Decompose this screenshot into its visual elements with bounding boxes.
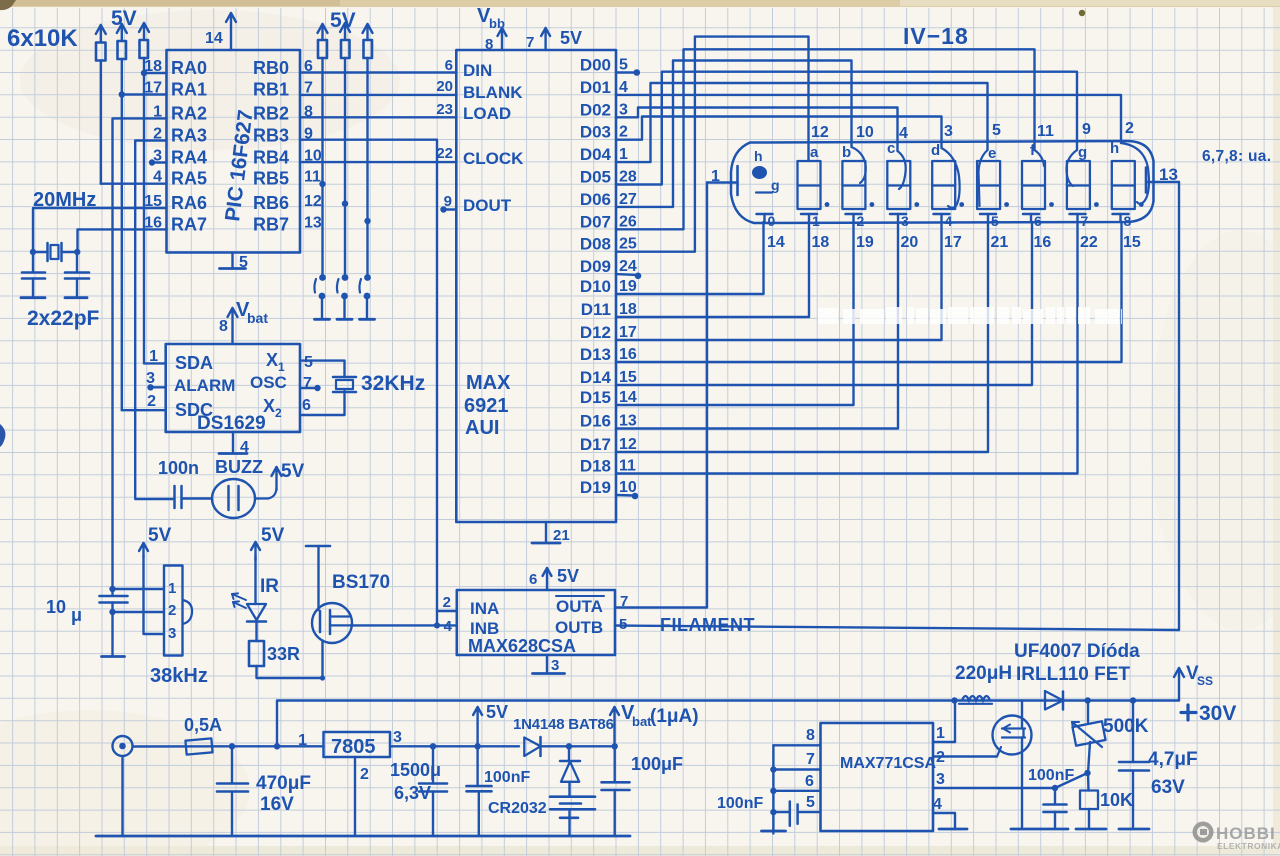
transistor Q2 IRLL110	[993, 716, 1032, 755]
wire jack to fuse	[134, 745, 232, 748]
svg-text:6,3V: 6,3V	[394, 783, 431, 803]
svg-text:6: 6	[805, 773, 814, 790]
svg-text:DOUT: DOUT	[463, 196, 512, 215]
hook segment f	[1035, 150, 1045, 166]
MAX628 INA stub	[437, 610, 457, 612]
svg-text:38kHz: 38kHz	[150, 665, 208, 687]
left edge ink mark (decorative)	[0, 424, 5, 447]
wire receiver pin1	[113, 588, 165, 590]
svg-text:1: 1	[278, 360, 285, 374]
svg-text:21: 21	[553, 527, 570, 544]
svg-text:11: 11	[1037, 123, 1054, 140]
svg-text:2x22pF: 2x22pF	[27, 307, 100, 330]
svg-text:D11: D11	[581, 300, 611, 319]
wire D04 to segment e	[616, 83, 988, 162]
junction pot	[1085, 697, 1091, 703]
svg-text:9: 9	[1082, 121, 1091, 138]
resistor R3 10K	[140, 40, 149, 58]
bottom-right watermark logo (decorative)	[1193, 822, 1280, 852]
svg-text:470μF: 470μF	[256, 773, 311, 794]
svg-text:BLANK: BLANK	[463, 83, 523, 102]
svg-text:30V: 30V	[1199, 702, 1236, 725]
svg-text:26: 26	[619, 213, 637, 230]
svg-text:4: 4	[619, 79, 628, 96]
svg-text:5: 5	[304, 354, 313, 371]
svg-text:3: 3	[551, 657, 559, 674]
svg-text:b: b	[842, 144, 851, 161]
svg-text:4: 4	[899, 125, 908, 142]
svg-text:10: 10	[856, 124, 874, 141]
svg-text:13: 13	[1159, 165, 1178, 184]
5V arrow R5	[344, 24, 346, 40]
svg-text:LOAD: LOAD	[463, 104, 511, 123]
svg-text:6921: 6921	[464, 395, 509, 417]
svg-text:5: 5	[992, 122, 1001, 139]
svg-text:18: 18	[812, 234, 830, 251]
wire R1 to RA5	[100, 61, 102, 184]
svg-text:RB3: RB3	[253, 126, 289, 146]
svg-text:2: 2	[1125, 120, 1134, 137]
ground C2	[65, 296, 87, 299]
svg-text:RB2: RB2	[253, 103, 289, 123]
svg-text:D04: D04	[580, 145, 612, 164]
svg-text:16: 16	[619, 346, 637, 363]
svg-text:33R: 33R	[267, 644, 300, 664]
tube grid 2 bar	[846, 213, 862, 216]
svg-text:13: 13	[304, 214, 322, 231]
wire to 7805 input	[232, 745, 324, 747]
svg-text:D07: D07	[580, 212, 611, 231]
5V arrow R6	[366, 25, 368, 40]
svg-text:D19: D19	[580, 478, 611, 497]
tube digit cell 4	[932, 161, 955, 209]
MAX771 input pin column	[772, 745, 774, 833]
svg-text:3: 3	[901, 213, 909, 229]
tube heater indicator dot	[752, 166, 767, 179]
switch at x=367.5	[364, 274, 371, 281]
MAX6921 5V arrow pin7	[544, 29, 546, 50]
crystal X1 20MHz	[33, 251, 48, 253]
ground switch x=345	[337, 318, 352, 321]
svg-text:7: 7	[526, 34, 534, 51]
hook segment h	[1121, 143, 1149, 204]
tube grid 6 bar	[1023, 213, 1039, 216]
svg-text:d: d	[931, 142, 940, 159]
wire R2 to SDC bus	[121, 59, 123, 410]
wire cap to buzzer	[182, 497, 213, 499]
filament return wire to OUTB	[1178, 182, 1180, 630]
switch at x=322.5	[319, 274, 326, 281]
switch at x=345	[342, 274, 349, 281]
junction RB6	[342, 200, 348, 206]
capacitor C5 1500uF 6.3V	[432, 746, 434, 783]
5V arrow buzzer	[275, 468, 277, 490]
wire receiver pin2	[113, 611, 165, 613]
tube grid 5 bar	[980, 213, 996, 216]
svg-text:2: 2	[168, 602, 176, 619]
svg-text:5V: 5V	[281, 461, 305, 482]
transistor Q1 BS170	[312, 603, 352, 643]
resistor R6 10K	[364, 40, 373, 58]
wire 33R to BS170 source	[257, 666, 323, 678]
wire RB1 to BLANK	[300, 94, 456, 96]
tube grid 1 bar	[801, 213, 817, 216]
LED D1 infrared	[247, 604, 266, 620]
svg-text:UF4007 Díóda: UF4007 Díóda	[1014, 641, 1140, 662]
7805 pin2 to ground	[354, 757, 356, 836]
tube grid 4 bar	[934, 213, 950, 216]
svg-text:5V: 5V	[486, 702, 508, 722]
wire D14 to grid 6	[616, 222, 1032, 385]
svg-text:μ: μ	[71, 605, 82, 625]
svg-text:BUZZ: BUZZ	[215, 457, 263, 477]
svg-text:h: h	[754, 148, 763, 164]
svg-text:12: 12	[619, 436, 637, 453]
svg-text:8: 8	[1124, 213, 1132, 229]
svg-text:23: 23	[436, 101, 453, 118]
hook segment b	[852, 147, 866, 183]
wire RA7 row to crystal	[78, 229, 167, 252]
stub D00 (nc)	[616, 71, 636, 73]
svg-text:e: e	[988, 145, 996, 162]
stub D09 (nc)	[616, 273, 637, 276]
svg-text:2: 2	[857, 213, 865, 229]
svg-text:D08: D08	[580, 235, 611, 254]
ground pin column	[762, 830, 786, 833]
svg-text:7: 7	[303, 375, 312, 392]
svg-text:5: 5	[239, 254, 248, 271]
ground 10K	[1076, 828, 1106, 831]
5V arrow R4	[321, 25, 323, 40]
wire RA3 row to buzzer bus	[135, 141, 174, 500]
svg-text:1: 1	[168, 580, 176, 597]
svg-text:bb: bb	[489, 16, 505, 31]
diode D3 BAT86 up	[568, 746, 570, 761]
main ground rail	[96, 835, 630, 838]
svg-text:OSC: OSC	[250, 373, 287, 392]
wire R5 to switch S2	[344, 58, 346, 275]
svg-text:MAX: MAX	[466, 372, 511, 394]
svg-text:6: 6	[445, 57, 453, 74]
svg-text:17: 17	[944, 234, 962, 251]
wire D07 to segment f	[616, 49, 1035, 229]
resistor R4 10K	[318, 40, 327, 58]
svg-text:2: 2	[360, 766, 369, 783]
tube digit cell 1	[798, 161, 821, 209]
junction RA0/R3	[141, 70, 147, 76]
svg-text:7: 7	[806, 751, 815, 768]
svg-text:4: 4	[933, 796, 942, 813]
5V arrow R2	[121, 25, 123, 41]
svg-text:2: 2	[275, 406, 282, 420]
capacitor C7 100uF	[614, 746, 616, 782]
DS1629 Vbat arrow pin8	[231, 309, 233, 344]
svg-text:32KHz: 32KHz	[361, 372, 425, 395]
MAX6921 pin21 ground	[545, 522, 547, 542]
tube digit cell 2	[842, 161, 865, 209]
svg-text:MAX628CSA: MAX628CSA	[468, 636, 576, 656]
junction battery branch	[566, 743, 572, 749]
svg-text:c: c	[887, 140, 895, 157]
svg-text:0: 0	[768, 213, 776, 229]
svg-text:RB4: RB4	[253, 148, 289, 168]
svg-text:CLOCK: CLOCK	[463, 149, 524, 168]
crystal X2 32kHz	[333, 376, 356, 379]
svg-text:SDA: SDA	[175, 353, 213, 373]
capacitor C1 22pF	[32, 252, 34, 273]
svg-text:RA4: RA4	[171, 148, 207, 168]
ground switch x=367.5	[360, 318, 375, 321]
svg-text:19: 19	[619, 278, 637, 295]
junction RB7	[364, 218, 370, 224]
tube pin 1 (filament left)	[707, 181, 738, 183]
svg-text:INA: INA	[470, 599, 499, 618]
jack ground stub	[121, 758, 123, 836]
wire D13 to grid 8	[616, 222, 1122, 362]
diode D4 UF4007	[1045, 691, 1063, 710]
tube V1 IV-18 envelope	[731, 141, 1154, 223]
svg-text:20MHz: 20MHz	[33, 189, 96, 211]
wire RB3 down to CLOCK and MAX628 bus	[300, 140, 437, 626]
resistor R9 10K	[1087, 773, 1090, 791]
wire RA6 row to crystal	[33, 208, 167, 252]
svg-text:6,7,8: ua.: 6,7,8: ua.	[1202, 148, 1271, 165]
svg-text:D06: D06	[580, 190, 611, 209]
svg-text:D10: D10	[580, 277, 611, 296]
svg-text:D18: D18	[580, 457, 611, 476]
svg-text:D05: D05	[580, 168, 611, 187]
svg-text:1: 1	[298, 732, 307, 749]
ground C10	[1042, 828, 1068, 831]
svg-text:1: 1	[812, 213, 820, 229]
svg-text:5V: 5V	[261, 525, 285, 546]
resistor R7 33R	[249, 641, 264, 666]
svg-text:5: 5	[991, 213, 999, 229]
svg-text:25: 25	[619, 236, 637, 253]
wire R4 to switch S1	[321, 58, 323, 275]
svg-text:g: g	[1078, 144, 1087, 161]
svg-text:RA3: RA3	[171, 126, 207, 146]
svg-text:D15: D15	[580, 388, 611, 407]
svg-text:D17: D17	[580, 435, 611, 454]
wire RA5 row	[101, 182, 167, 184]
5V arrow R3	[143, 24, 145, 40]
Vbat arrow	[613, 708, 615, 746]
svg-text:24: 24	[619, 258, 637, 275]
ground C11	[1119, 828, 1149, 831]
wire RA1 row	[122, 93, 167, 95]
svg-text:D13: D13	[580, 345, 611, 364]
svg-text:10: 10	[46, 597, 66, 617]
svg-text:7: 7	[1081, 213, 1089, 229]
svg-text:4: 4	[240, 439, 249, 456]
svg-text:RA1: RA1	[171, 80, 207, 100]
svg-text:RB7: RB7	[253, 214, 289, 234]
svg-text:D02: D02	[580, 100, 611, 119]
BS170 source wire	[321, 641, 323, 678]
IC U3 DS1629 body	[166, 344, 300, 432]
IC U7 MAX771CSA body	[821, 723, 934, 831]
svg-text:20: 20	[436, 78, 453, 95]
svg-text:ALARM: ALARM	[174, 376, 235, 395]
svg-text:DIN: DIN	[463, 61, 492, 80]
svg-text:RA2: RA2	[171, 103, 207, 123]
svg-text:15: 15	[1123, 234, 1141, 251]
MAX628 pin6 5V arrow	[546, 569, 548, 590]
battery B1 CR2032	[568, 782, 570, 797]
ground switch x=322.5	[315, 318, 330, 321]
svg-text:CR2032: CR2032	[488, 800, 547, 817]
wire D03 to segment d	[616, 117, 942, 149]
BS170 gate terminal bar	[306, 545, 330, 548]
svg-text:13: 13	[619, 413, 637, 430]
hook segment d	[942, 148, 960, 208]
wire RA2 row to IR receiver bus	[113, 118, 167, 594]
svg-text:6x10K: 6x10K	[7, 25, 78, 52]
resistor R5 10K	[341, 40, 350, 58]
svg-text:2: 2	[619, 124, 628, 141]
tube pin 13 (filament right)	[1145, 168, 1148, 193]
svg-text:8: 8	[219, 318, 228, 335]
svg-text:3: 3	[944, 123, 953, 140]
PIC pin 5 ground	[231, 253, 233, 269]
paper stains (decorative)	[20, 10, 400, 150]
svg-text:100nF: 100nF	[717, 795, 763, 812]
ground C1	[21, 296, 45, 299]
wire D10 to grid 0	[616, 222, 764, 294]
svg-text:IR: IR	[260, 576, 279, 597]
svg-text:SS: SS	[1197, 674, 1213, 688]
svg-text:4: 4	[444, 618, 453, 635]
svg-text:63V: 63V	[1151, 777, 1185, 798]
wire RB2 to LOAD	[300, 116, 456, 118]
svg-text:500K: 500K	[1103, 716, 1149, 737]
svg-text:8: 8	[806, 727, 815, 744]
svg-text:14: 14	[205, 30, 223, 47]
wire D16 to grid 3	[616, 222, 898, 429]
junction receiver pin2	[109, 609, 115, 615]
junction 4.7uF	[1130, 697, 1136, 703]
IR receiver U6 38kHz body	[164, 566, 183, 656]
junction RA1/R2	[119, 91, 125, 97]
FET source to ground	[1021, 738, 1023, 829]
svg-text:20: 20	[901, 234, 919, 251]
svg-text:h: h	[1110, 140, 1119, 157]
svg-text:100nF: 100nF	[484, 769, 530, 786]
5V arrow output	[476, 708, 478, 746]
svg-text:(1μA): (1μA)	[650, 706, 699, 727]
svg-text:RA7: RA7	[171, 214, 207, 234]
MAX628 pin3 ground	[546, 655, 548, 672]
svg-text:OUTB: OUTB	[555, 618, 603, 637]
wire buzzer to 5V	[255, 488, 277, 499]
capacitor C4 470uF	[231, 746, 233, 783]
svg-text:3: 3	[168, 625, 176, 642]
svg-text:D16: D16	[580, 412, 611, 431]
wire D12 to grid 4	[616, 222, 942, 340]
svg-text:a: a	[810, 144, 819, 161]
junction 100n / 5V node	[474, 743, 480, 749]
svg-text:MAX771CSA: MAX771CSA	[840, 755, 936, 772]
wire RB0 to DIN	[300, 71, 456, 73]
junction receiver pin1	[109, 586, 115, 592]
svg-text:6: 6	[302, 397, 311, 414]
resistor R2 10K	[118, 41, 127, 59]
tube digit cell 5	[977, 161, 1000, 209]
wire CLOCK row	[300, 161, 456, 163]
resistor R1 10K	[96, 43, 106, 61]
5V arrow receiver	[142, 544, 144, 557]
5V arrow LED	[254, 543, 256, 560]
svg-text:5V: 5V	[560, 28, 582, 48]
svg-text:5: 5	[619, 57, 628, 74]
svg-text:4,7μF: 4,7μF	[1148, 749, 1198, 770]
capacitor C8 10uF	[100, 595, 128, 598]
svg-text:BS170: BS170	[332, 572, 390, 593]
svg-text:D14: D14	[580, 368, 612, 387]
wire D17 to grid 5	[616, 222, 988, 452]
svg-text:2: 2	[147, 393, 156, 410]
svg-text:12: 12	[811, 124, 829, 141]
svg-text:6: 6	[1034, 213, 1042, 229]
svg-text:1: 1	[711, 168, 720, 185]
svg-text:D00: D00	[580, 56, 611, 75]
hook segment c	[898, 151, 906, 189]
svg-text:11: 11	[619, 458, 636, 475]
wire diode to Vbat node	[541, 745, 615, 747]
svg-text:6: 6	[529, 571, 537, 588]
ground C8	[102, 655, 125, 658]
svg-text:18: 18	[619, 301, 637, 318]
power connector J1	[113, 736, 133, 756]
hook segment e	[979, 150, 988, 206]
wire R6 to switch S3	[366, 58, 368, 275]
svg-text:RB6: RB6	[253, 193, 289, 213]
svg-text:IV−18: IV−18	[903, 23, 969, 49]
Vss arrow +30V	[1178, 669, 1180, 701]
svg-text:14: 14	[767, 234, 785, 251]
junction 1500u	[430, 743, 436, 749]
IC U2 MAX6921AWI body	[456, 50, 616, 522]
svg-text:5: 5	[806, 794, 815, 811]
svg-text:5V: 5V	[148, 525, 172, 546]
svg-text:3: 3	[393, 729, 402, 746]
tube digit cell 8	[1112, 161, 1135, 209]
wire D01 to segment h	[616, 95, 1121, 143]
svg-text:11: 11	[304, 169, 321, 186]
svg-text:RB1: RB1	[253, 80, 289, 100]
svg-text:OUTA: OUTA	[556, 597, 603, 616]
wire R3 to SDA bus	[143, 58, 145, 363]
svg-text:RB0: RB0	[253, 58, 289, 78]
wire D15 to grid 2	[616, 222, 854, 405]
svg-text:bat: bat	[247, 310, 268, 326]
svg-text:3: 3	[936, 771, 945, 788]
capacitor C9 100nF pin5	[773, 811, 789, 813]
svg-text:28: 28	[619, 169, 637, 186]
svg-text:100n: 100n	[158, 458, 199, 478]
tube grid 3 bar	[890, 213, 906, 216]
junction 470u	[229, 743, 235, 749]
BS170 drain wire to MAX628 INB	[351, 624, 457, 626]
svg-text:RA6: RA6	[171, 193, 207, 213]
svg-text:19: 19	[856, 234, 874, 251]
wire 7805 out	[390, 745, 519, 747]
svg-text:DS1629: DS1629	[197, 413, 266, 434]
diode D2 1N4148 series	[524, 738, 540, 757]
svg-text:12: 12	[304, 193, 322, 210]
stub D19 (nc)	[616, 494, 634, 497]
